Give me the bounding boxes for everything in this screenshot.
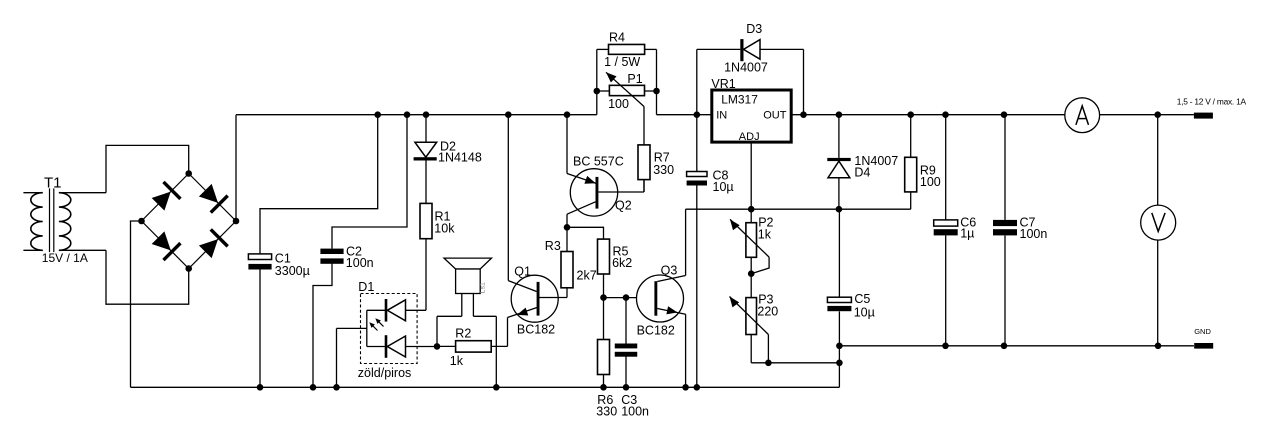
svg-text:3300µ: 3300µ (275, 264, 310, 278)
svg-text:100n: 100n (621, 405, 649, 419)
svg-text:D3: D3 (746, 22, 762, 36)
svg-text:1µ: 1µ (960, 227, 974, 241)
svg-text:2k7: 2k7 (577, 268, 597, 282)
svg-text:GND: GND (1194, 327, 1211, 336)
svg-text:1 / 5W: 1 / 5W (604, 55, 640, 69)
svg-text:10k: 10k (434, 221, 455, 235)
svg-text:Ls1: Ls1 (479, 282, 486, 293)
svg-text:P1: P1 (627, 72, 642, 86)
svg-text:1k: 1k (450, 354, 464, 368)
svg-text:6k2: 6k2 (612, 256, 632, 270)
svg-text:1,5 - 12 V / max. 1A: 1,5 - 12 V / max. 1A (1177, 97, 1247, 107)
svg-text:C5: C5 (854, 292, 870, 306)
svg-text:10µ: 10µ (854, 305, 875, 319)
svg-text:1N4148: 1N4148 (438, 151, 482, 165)
svg-text:100n: 100n (346, 256, 374, 270)
svg-text:330: 330 (596, 405, 617, 419)
svg-text:LM317: LM317 (721, 93, 758, 107)
svg-text:Q2: Q2 (615, 198, 632, 212)
svg-text:zöld/piros: zöld/piros (358, 366, 412, 380)
svg-text:T1: T1 (44, 174, 62, 191)
svg-text:BC182: BC182 (517, 323, 555, 337)
svg-text:10µ: 10µ (713, 180, 734, 194)
svg-text:15V / 1A: 15V / 1A (42, 251, 88, 265)
svg-text:100: 100 (920, 175, 941, 189)
svg-text:OUT: OUT (763, 110, 787, 122)
svg-text:1N4007: 1N4007 (724, 60, 768, 74)
svg-text:330: 330 (653, 163, 674, 177)
svg-text:100: 100 (608, 97, 629, 111)
svg-text:R2: R2 (455, 327, 471, 341)
svg-text:IN: IN (716, 110, 727, 122)
svg-text:ADJ: ADJ (739, 131, 760, 143)
svg-text:Q1: Q1 (514, 264, 531, 278)
svg-text:R4: R4 (609, 30, 625, 44)
svg-text:BC 557C: BC 557C (573, 154, 624, 168)
svg-text:220: 220 (757, 305, 778, 319)
svg-text:100n: 100n (1020, 227, 1048, 241)
svg-text:D4: D4 (854, 166, 870, 180)
svg-text:1k: 1k (758, 227, 772, 241)
svg-text:D1: D1 (358, 280, 374, 294)
svg-text:Q3: Q3 (661, 264, 678, 278)
svg-text:BC182: BC182 (637, 324, 675, 338)
svg-text:VR1: VR1 (711, 77, 735, 91)
svg-text:R3: R3 (545, 239, 561, 253)
